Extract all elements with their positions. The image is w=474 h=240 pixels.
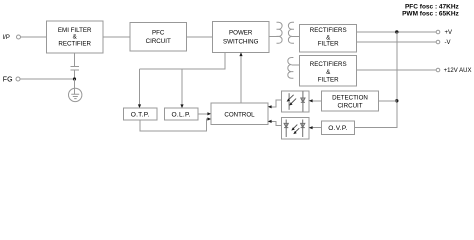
svg-text:PWM fosc : 65KHz: PWM fosc : 65KHz [402, 11, 459, 18]
photocoupler U2 left photodiode [284, 120, 288, 138]
transformer T1 secondary winding 1 [288, 22, 294, 43]
wire FG junction to earth [74, 79, 76, 94]
arrow OTP route into CONTROL [207, 117, 211, 120]
node +V junction [395, 30, 398, 33]
svg-text:FILTER: FILTER [318, 77, 339, 84]
block DETECTION CIRCUIT [322, 91, 379, 111]
svg-text:+12V AUX: +12V AUX [444, 68, 472, 74]
photocoupler U1 light arrows [289, 95, 297, 104]
wire rectifier2 to +12V AUX [357, 69, 437, 71]
wire EMI to PFC [103, 36, 130, 38]
block RECTIFIERS & FILTER 1 [300, 25, 357, 53]
svg-text:PFC: PFC [152, 30, 165, 37]
wire PS to transformer primary [269, 35, 279, 37]
arrow OVP into opto2 [309, 126, 313, 129]
block EMI FILTER & RECTIFIER [47, 21, 104, 53]
svg-text:PFC fosc : 47KHz: PFC fosc : 47KHz [405, 4, 460, 11]
terminal +12V AUX [436, 68, 440, 72]
block O.V.P. [322, 121, 355, 135]
svg-text:SWITCHING: SWITCHING [223, 39, 259, 46]
photocoupler U2 box [282, 118, 310, 140]
terminal -V [436, 40, 440, 44]
svg-text:FILTER: FILTER [318, 41, 339, 48]
wire detection to rail [379, 100, 397, 102]
svg-text:DETECTION: DETECTION [332, 94, 368, 101]
photocoupler U2 right photodiode [301, 120, 305, 138]
wire OLP to CONTROL [198, 113, 210, 115]
arrow opto1 into CONTROL [268, 105, 272, 108]
wire FG line [20, 78, 75, 80]
svg-text:RECTIFIERS: RECTIFIERS [310, 61, 347, 68]
block RECTIFIERS & FILTER 2 [300, 56, 357, 87]
wire I/P to EMI [21, 36, 47, 38]
transformer T1 secondary winding 2 (aux) [288, 58, 294, 79]
photocoupler U2 light arrows [293, 125, 299, 133]
wire rectifier1 to +V [357, 31, 437, 33]
wire detection to opto1 [310, 100, 322, 102]
svg-text:O.L.P.: O.L.P. [172, 111, 191, 118]
wire rectifier1 to -V [357, 41, 437, 43]
wire drop to OTP [139, 69, 141, 107]
photocoupler U1 LED [301, 91, 305, 111]
svg-text:O.V.P.: O.V.P. [328, 125, 347, 132]
svg-text:CIRCUIT: CIRCUIT [146, 38, 171, 45]
wire secondary1 to rectifier1 [292, 35, 300, 37]
wire opto2 to CONTROL [269, 121, 282, 125]
wire OVP to opto2 [310, 127, 322, 129]
svg-text:I/P: I/P [3, 35, 10, 41]
earth ground symbol [69, 88, 82, 101]
arrow into OTP [138, 104, 141, 108]
svg-text:CIRCUIT: CIRCUIT [337, 102, 362, 109]
arrow into PS bottom [239, 52, 242, 56]
photocoupler U1 phototransistor [288, 93, 290, 110]
svg-text:-V: -V [445, 40, 451, 46]
arrow into OLP [180, 104, 183, 108]
wire OTP route to CONTROL [140, 119, 210, 131]
svg-text:POWER: POWER [229, 30, 253, 37]
block O.L.P. [165, 108, 199, 120]
wire PFC to POWER SWITCHING [187, 36, 213, 38]
wire secondary2 to rectifier2 [291, 64, 299, 66]
arrow opto2 into CONTROL [268, 120, 272, 123]
wire PS bottom to OTP/OLP collector [140, 53, 226, 70]
photocoupler U1 box [282, 91, 310, 112]
svg-text:RECTIFIER: RECTIFIER [58, 40, 91, 47]
block CONTROL [211, 103, 268, 125]
svg-text:O.T.P.: O.T.P. [131, 111, 150, 118]
block POWER SWITCHING [213, 22, 270, 53]
capacitor Y-cap [71, 67, 80, 70]
terminal +V [436, 30, 440, 34]
svg-text:+V: +V [445, 30, 453, 36]
block O.T.P. [124, 108, 158, 120]
svg-text:FG: FG [3, 76, 13, 83]
block PFC CIRCUIT [130, 22, 187, 51]
wire drop to OLP [181, 69, 183, 107]
arrow OLP into CONTROL [207, 112, 211, 115]
wire +V rail down to OVP level [355, 32, 397, 128]
wire EMI bottom to capacitor [74, 53, 76, 67]
node FG junction [73, 77, 76, 80]
arrow detection into opto1 [309, 99, 313, 102]
wire CONTROL to PS [240, 54, 242, 104]
svg-text:CONTROL: CONTROL [224, 112, 255, 119]
node detection junction [395, 99, 398, 102]
wire capacitor to FG line [74, 70, 76, 79]
wire opto1 to CONTROL [269, 100, 282, 107]
svg-text:RECTIFIERS: RECTIFIERS [310, 27, 347, 34]
transformer T1 primary winding [277, 22, 283, 43]
